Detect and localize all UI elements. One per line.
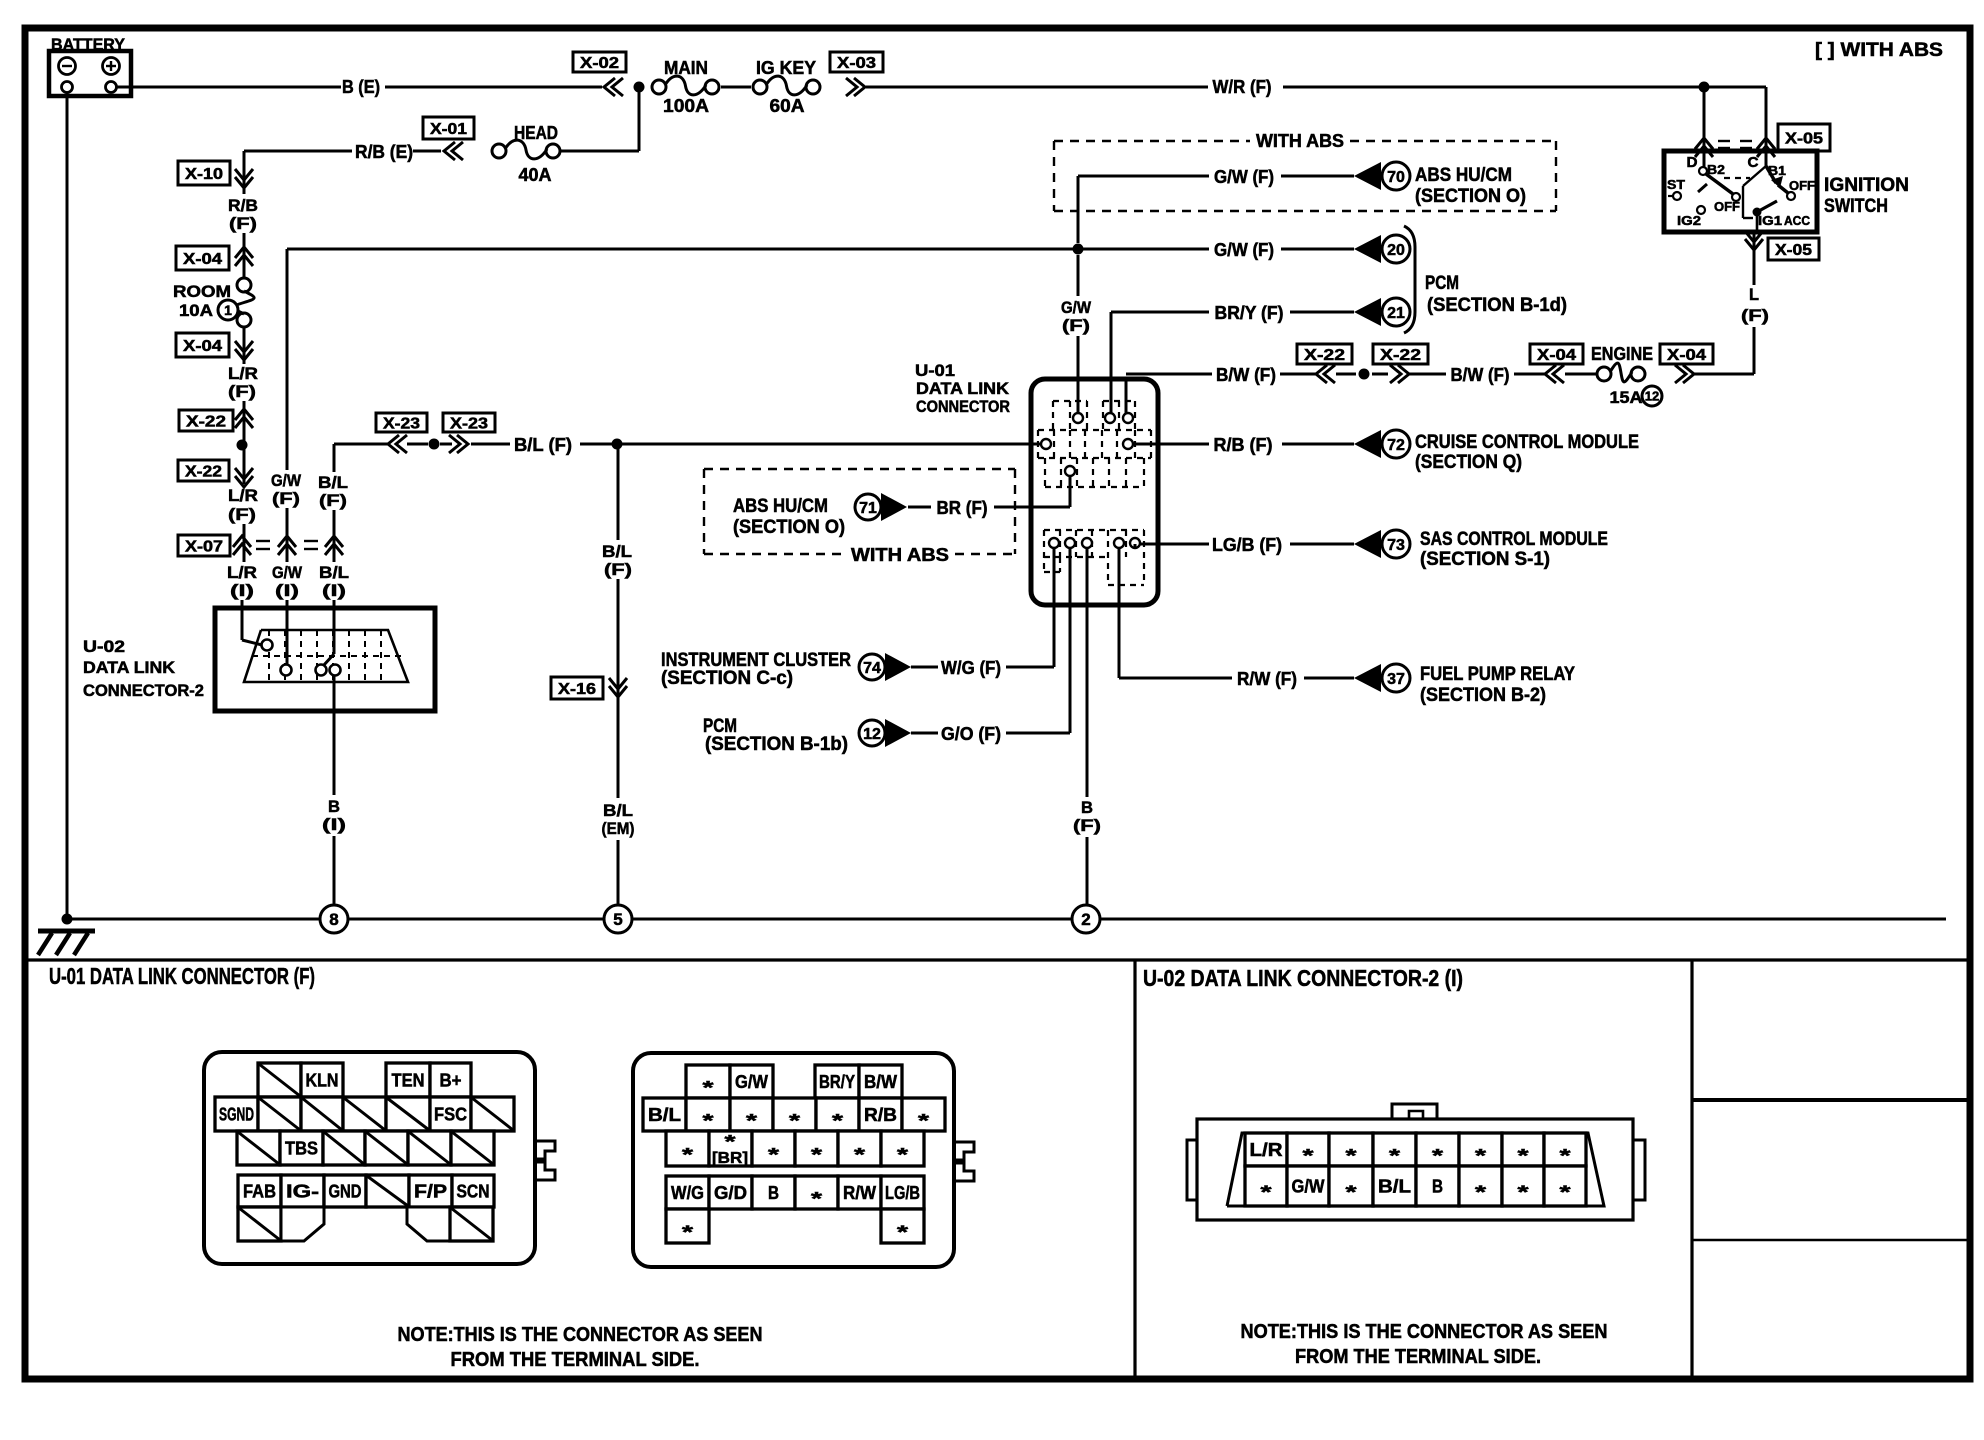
svg-text:B/L: B/L	[648, 1105, 681, 1125]
U-01 pins top	[1073, 413, 1083, 423]
svg-text:15A: 15A	[1610, 388, 1643, 407]
svg-text:71: 71	[859, 500, 877, 517]
svg-text:*: *	[854, 1145, 865, 1165]
svg-text:(F): (F)	[604, 560, 632, 579]
U-02 view side tabs	[1187, 1140, 1197, 1200]
svg-text:CONNECTOR-2: CONNECTOR-2	[83, 681, 204, 700]
U-01 view row3	[237, 1131, 280, 1165]
svg-text:G/W: G/W	[1292, 1177, 1325, 1197]
U-01 view row2	[215, 1097, 258, 1131]
svg-text:37: 37	[1387, 671, 1405, 688]
svg-text:B: B	[768, 1183, 779, 1203]
U-01 pins bottom	[1049, 538, 1059, 548]
svg-text:B/W (F): B/W (F)	[1451, 365, 1510, 385]
svg-text:B/L: B/L	[319, 563, 349, 582]
svg-text:CRUISE CONTROL MODULE: CRUISE CONTROL MODULE	[1415, 432, 1639, 453]
svg-text:U-01: U-01	[915, 361, 955, 380]
wire G/O row	[911, 732, 938, 735]
svg-text:(F): (F)	[1062, 316, 1090, 335]
U-01 view row4	[238, 1175, 281, 1207]
ground node 2	[1072, 905, 1100, 933]
svg-text:*: *	[897, 1223, 908, 1243]
svg-text:*: *	[811, 1145, 822, 1165]
wire B/L row	[334, 443, 389, 446]
wire BR row	[908, 506, 931, 509]
svg-text:X-22: X-22	[1380, 347, 1421, 364]
U-01 dashed pin blocks top	[1052, 401, 1054, 430]
U-02 pin field dashes	[268, 630, 270, 682]
svg-text:WITH ABS: WITH ABS	[851, 545, 949, 565]
svg-text:*: *	[1303, 1146, 1314, 1166]
svg-text:B+: B+	[440, 1071, 462, 1091]
wire W/G row	[911, 666, 938, 669]
svg-text:B/W: B/W	[864, 1072, 897, 1092]
wire G/W column	[286, 249, 289, 470]
svg-text:X-23: X-23	[383, 416, 420, 433]
svg-text:FAB: FAB	[243, 1182, 276, 1202]
wire to ignition switch D	[1703, 87, 1706, 167]
PCM bracket	[1404, 226, 1415, 333]
wire B/W row	[1125, 378, 1128, 414]
svg-text:X-05: X-05	[1785, 131, 1823, 148]
svg-text:*: *	[897, 1145, 908, 1165]
junction node G/W	[1073, 244, 1084, 255]
dashed box WITH ABS lower	[704, 468, 1015, 470]
U-01 pins middle	[1041, 439, 1051, 449]
svg-text:*: *	[918, 1111, 929, 1131]
module arrow 73 SAS	[1354, 530, 1381, 558]
svg-text:*: *	[789, 1111, 800, 1131]
svg-text:(F): (F)	[228, 505, 256, 524]
svg-text:U-01 DATA LINK CONNECTOR (F): U-01 DATA LINK CONNECTOR (F)	[49, 963, 315, 989]
svg-text:LG/B: LG/B	[885, 1183, 920, 1203]
svg-text:D: D	[1687, 154, 1698, 171]
svg-text:SWITCH: SWITCH	[1824, 196, 1888, 217]
svg-text:PCM: PCM	[1425, 273, 1459, 294]
svg-text:L/R: L/R	[228, 364, 258, 383]
wire G/W to ABS	[1077, 176, 1080, 243]
svg-text:12: 12	[863, 726, 881, 743]
svg-text:(SECTION C-c): (SECTION C-c)	[661, 668, 793, 689]
connector X-03	[830, 52, 883, 72]
wire view row1	[686, 1065, 730, 1098]
svg-text:G/W: G/W	[272, 563, 303, 582]
svg-text:R/B (F): R/B (F)	[1214, 435, 1273, 455]
svg-text:*: *	[811, 1189, 822, 1209]
connector X-23 pair	[376, 413, 427, 432]
svg-text:*: *	[768, 1145, 779, 1165]
svg-text:*: *	[1475, 1146, 1486, 1166]
svg-text:70: 70	[1387, 169, 1405, 186]
bottom right column line 1	[1692, 1098, 1970, 1102]
U-01 dashed band middle	[1038, 429, 1151, 431]
svg-text:X-02: X-02	[580, 55, 619, 72]
svg-text:60A: 60A	[770, 96, 805, 116]
svg-text:(F): (F)	[272, 489, 300, 508]
svg-text:G/D: G/D	[714, 1183, 747, 1203]
ground bus wire	[67, 918, 320, 921]
svg-text:R/W (F): R/W (F)	[1237, 669, 1297, 689]
wire B/L to X-16	[617, 449, 620, 540]
module arrow 20 PCM	[1354, 235, 1381, 263]
svg-text:*: *	[832, 1111, 843, 1131]
wire to ignition switch B1	[1765, 87, 1768, 166]
svg-text:ST: ST	[1667, 177, 1685, 192]
svg-text:X-22: X-22	[185, 464, 222, 481]
svg-text:(EM): (EM)	[602, 819, 635, 838]
svg-text:X-07: X-07	[185, 539, 223, 556]
svg-text:X-04: X-04	[183, 338, 222, 355]
svg-text:5: 5	[613, 910, 622, 929]
connector X-05 bottom	[1745, 239, 1763, 250]
wire R/B(E) branch from MAIN junction	[638, 87, 641, 151]
svg-text:G/W: G/W	[1061, 298, 1092, 317]
connector X-05 top	[1695, 138, 1713, 149]
svg-text:B/L: B/L	[1378, 1177, 1411, 1197]
svg-text:X-04: X-04	[183, 251, 222, 268]
svg-text:(I): (I)	[275, 581, 299, 600]
svg-text:*: *	[682, 1223, 693, 1243]
svg-text:R/B: R/B	[864, 1105, 897, 1125]
connector X-22 upper	[179, 410, 233, 431]
wire B(F) to ground	[1086, 548, 1089, 797]
wire B(I) to ground	[333, 676, 336, 795]
svg-text:TEN: TEN	[392, 1071, 425, 1091]
svg-text:G/O (F): G/O (F)	[941, 724, 1001, 744]
svg-text:(SECTION B-2): (SECTION B-2)	[1420, 685, 1546, 706]
junction node B/L	[612, 439, 623, 450]
U-01 dashed block bottom	[1044, 529, 1144, 531]
fuse HEAD 40A	[492, 144, 506, 158]
svg-text:72: 72	[1387, 437, 1405, 454]
U-01 wire-side connector outline	[633, 1053, 954, 1267]
wire view row4	[666, 1176, 709, 1209]
svg-text:21: 21	[1387, 305, 1405, 322]
svg-text:X-23: X-23	[450, 416, 488, 433]
svg-text:*: *	[703, 1078, 714, 1098]
svg-text:W/R (F): W/R (F)	[1213, 77, 1272, 97]
svg-text:FUEL PUMP RELAY: FUEL PUMP RELAY	[1420, 664, 1575, 685]
U-02 view body	[1197, 1119, 1633, 1220]
module arrow 21 PCM	[1354, 298, 1381, 326]
svg-text:BR (F): BR (F)	[937, 498, 988, 518]
svg-text:*: *	[725, 1132, 736, 1152]
svg-text:*: *	[1560, 1146, 1571, 1166]
svg-text:(F): (F)	[319, 491, 347, 510]
svg-text:X-04: X-04	[1667, 347, 1706, 364]
connector X-02	[573, 52, 626, 72]
U-01 pin BR	[1065, 466, 1075, 476]
svg-text:B: B	[328, 797, 340, 816]
svg-text:B: B	[1081, 798, 1093, 817]
svg-text:ABS HU/CM: ABS HU/CM	[733, 496, 828, 517]
svg-text:74: 74	[863, 660, 881, 677]
svg-text:12: 12	[1645, 389, 1659, 404]
svg-text:OFF: OFF	[1789, 178, 1815, 193]
svg-text:IG2: IG2	[1677, 213, 1701, 228]
svg-text:(SECTION Q): (SECTION Q)	[1415, 452, 1522, 473]
svg-text:IG1: IG1	[1758, 213, 1782, 228]
wire R/B row	[1133, 443, 1209, 446]
svg-text:G/W: G/W	[271, 471, 302, 490]
U-02 view trapezoid	[1227, 1133, 1604, 1206]
svg-text:W/G (F): W/G (F)	[941, 658, 1001, 678]
U-01 view row1	[258, 1063, 301, 1097]
U-01 terminal-side connector outline	[204, 1052, 535, 1264]
svg-text:20: 20	[1387, 242, 1405, 259]
svg-text:(SECTION O): (SECTION O)	[1415, 186, 1526, 207]
svg-text:*: *	[1518, 1183, 1529, 1203]
svg-text:IG-: IG-	[286, 1182, 319, 1202]
svg-text:W/G: W/G	[671, 1183, 704, 1203]
wire R/W row	[1118, 548, 1121, 678]
U-01 wire view latch	[954, 1142, 974, 1181]
svg-text:X-03: X-03	[837, 55, 876, 72]
svg-text:SCN: SCN	[457, 1182, 490, 1202]
connector X-04 lower	[176, 333, 229, 357]
svg-text:8: 8	[329, 910, 338, 929]
svg-text:B (E): B (E)	[342, 77, 380, 97]
svg-text:LG/B (F): LG/B (F)	[1212, 535, 1282, 555]
U-01 connector body	[1031, 379, 1158, 605]
svg-text:*: *	[1475, 1183, 1486, 1203]
svg-text:B/L: B/L	[318, 473, 348, 492]
svg-text:(SECTION O): (SECTION O)	[733, 517, 845, 538]
fuse ENGINE 15A	[1597, 367, 1611, 381]
svg-text:10A: 10A	[179, 301, 213, 320]
svg-text:U-02 DATA LINK CONNECTOR-2 (I): U-02 DATA LINK CONNECTOR-2 (I)	[1143, 965, 1463, 991]
dashed box WITH ABS upper	[1054, 140, 1250, 142]
module arrow 72 cruise	[1354, 430, 1381, 458]
svg-text:*: *	[746, 1111, 757, 1131]
svg-text:*: *	[1346, 1183, 1357, 1203]
fuse IG KEY 60A	[753, 80, 767, 94]
svg-text:ABS HU/CM: ABS HU/CM	[1415, 165, 1512, 186]
wire BR/Y row	[1110, 312, 1113, 414]
U-02 pin B	[330, 665, 341, 676]
connector X-07	[178, 535, 230, 556]
svg-text:C: C	[1748, 154, 1759, 171]
svg-text:L/R: L/R	[228, 486, 258, 505]
wire W/R(F) to ignition switch	[866, 86, 1208, 89]
svg-text:2: 2	[1081, 910, 1090, 929]
svg-text:*: *	[1346, 1146, 1357, 1166]
U-01 view row5	[238, 1207, 281, 1241]
svg-text:F/P: F/P	[414, 1182, 447, 1202]
U-02 view top tab	[1392, 1104, 1437, 1119]
svg-text:*: *	[703, 1111, 714, 1131]
U-02 pin B/L	[316, 665, 327, 676]
svg-text:*: *	[682, 1145, 693, 1165]
U-02 pin L/R	[262, 640, 273, 651]
svg-text:(F): (F)	[228, 382, 256, 401]
svg-text:*: *	[1518, 1146, 1529, 1166]
svg-text:GND: GND	[329, 1182, 362, 1202]
wires into U-02	[241, 600, 244, 640]
module arrow 12 PCM	[859, 720, 885, 746]
svg-text:(F): (F)	[229, 214, 257, 233]
connector X-04 pair engine	[1530, 344, 1583, 364]
battery B1	[49, 51, 131, 96]
svg-text:100A: 100A	[663, 96, 709, 116]
connector X-16	[551, 677, 603, 699]
svg-text:73: 73	[1387, 537, 1405, 554]
svg-text:NOTE:THIS IS THE CONNECTOR AS: NOTE:THIS IS THE CONNECTOR AS SEEN	[398, 1324, 763, 1346]
fuse MAIN 100A	[652, 80, 666, 94]
svg-text:ROOM: ROOM	[173, 282, 231, 301]
svg-text:FROM THE TERMINAL SIDE.: FROM THE TERMINAL SIDE.	[451, 1349, 700, 1371]
svg-text:U-02: U-02	[83, 637, 125, 656]
svg-text:(SECTION S-1): (SECTION S-1)	[1420, 549, 1550, 570]
svg-text:DATA LINK: DATA LINK	[916, 379, 1010, 398]
svg-text:*: *	[1560, 1183, 1571, 1203]
svg-text:B/L: B/L	[602, 542, 632, 561]
svg-text:ENGINE: ENGINE	[1591, 344, 1653, 364]
wire G/W col down to U-01	[1077, 255, 1080, 296]
junction node W/R	[1699, 82, 1710, 93]
svg-text:R/B (E): R/B (E)	[355, 142, 413, 162]
svg-text:(I): (I)	[322, 581, 346, 600]
svg-text:B/L: B/L	[603, 801, 633, 820]
svg-text:B/W (F): B/W (F)	[1216, 365, 1276, 385]
svg-text:SAS CONTROL MODULE: SAS CONTROL MODULE	[1420, 529, 1608, 550]
wire LG/B row	[1134, 544, 1137, 548]
svg-text:FSC: FSC	[434, 1105, 467, 1125]
module arrow 74 instrument cluster	[859, 654, 885, 680]
wire B(E) from battery to X-02	[117, 86, 341, 89]
svg-text:FROM THE TERMINAL SIDE.: FROM THE TERMINAL SIDE.	[1295, 1346, 1541, 1368]
module arrow 71 ABS	[855, 494, 881, 520]
svg-text:X-01: X-01	[430, 121, 467, 138]
U-02 connector body	[215, 608, 435, 711]
junction node at MAIN fuse	[634, 82, 645, 93]
divider line between schematic and connector views	[22, 958, 1970, 961]
connector X-10	[178, 161, 230, 185]
svg-text:R/W: R/W	[843, 1183, 876, 1203]
connector X-04 upper	[176, 246, 229, 270]
X-07 link dashes	[256, 540, 270, 542]
svg-text:X-04: X-04	[1537, 347, 1576, 364]
ignition switch box	[1664, 151, 1817, 232]
ground node 8	[320, 905, 348, 933]
svg-text:TBS: TBS	[285, 1139, 318, 1159]
wire battery ground down	[66, 93, 69, 919]
svg-text:IGNITION: IGNITION	[1824, 175, 1909, 196]
svg-text:*: *	[1261, 1183, 1272, 1203]
U-02 view cells	[1245, 1133, 1287, 1166]
svg-text:X-22: X-22	[186, 414, 226, 431]
ground symbol	[38, 929, 95, 934]
svg-text:*: *	[1389, 1146, 1400, 1166]
bottom right column line 2	[1692, 1239, 1970, 1241]
svg-text:L/R: L/R	[227, 563, 257, 582]
svg-text:HEAD: HEAD	[514, 123, 558, 143]
wire B/L column	[333, 444, 336, 472]
module arrow 37 fuel pump relay	[1354, 664, 1381, 692]
connector X-22 lower	[178, 460, 229, 481]
svg-text:CONNECTOR: CONNECTOR	[916, 397, 1010, 416]
U-02 pin field trapezoid	[244, 630, 408, 682]
junction node L/R	[237, 440, 248, 451]
svg-text:DATA LINK: DATA LINK	[83, 658, 176, 677]
svg-text:[ ] WITH ABS: [ ] WITH ABS	[1815, 40, 1943, 61]
svg-text:KLN: KLN	[306, 1071, 339, 1091]
svg-text:B/L (F): B/L (F)	[514, 435, 572, 455]
svg-text:X-10: X-10	[185, 166, 223, 183]
svg-text:L: L	[1749, 285, 1759, 304]
svg-text:[BR]: [BR]	[712, 1150, 748, 1167]
svg-text:SGND: SGND	[219, 1105, 254, 1125]
U-01 view latch	[535, 1141, 555, 1180]
bottom right column divider	[1690, 960, 1693, 1379]
bottom panel divider U-01/U-02	[1133, 960, 1136, 1379]
ground node 5	[604, 905, 632, 933]
svg-text:G/W: G/W	[735, 1072, 768, 1092]
svg-text:L/R: L/R	[1250, 1140, 1283, 1160]
wire view row2	[643, 1098, 686, 1131]
fuse ROOM 10A	[237, 278, 251, 292]
svg-text:X-16: X-16	[558, 681, 596, 698]
svg-text:R/B: R/B	[228, 196, 258, 215]
wire G/W long horizontal	[287, 248, 1209, 251]
svg-text:IG KEY: IG KEY	[756, 58, 816, 78]
svg-text:X-22: X-22	[1304, 347, 1345, 364]
svg-text:B: B	[1432, 1177, 1443, 1197]
module arrow 70 ABS HU/CM	[1354, 162, 1381, 190]
svg-text:(SECTION B-1b): (SECTION B-1b)	[705, 734, 848, 755]
svg-text:*: *	[1432, 1146, 1443, 1166]
connector X-01	[423, 117, 474, 139]
svg-text:ACC: ACC	[1784, 213, 1811, 228]
svg-text:BR/Y (F): BR/Y (F)	[1215, 303, 1284, 323]
U-01 dashed row BR	[1044, 458, 1046, 487]
svg-text:1: 1	[224, 302, 232, 318]
U-02 pin G/W	[286, 664, 289, 666]
svg-text:(SECTION B-1d): (SECTION B-1d)	[1427, 295, 1567, 316]
svg-text:NOTE:THIS IS THE CONNECTOR AS: NOTE:THIS IS THE CONNECTOR AS SEEN	[1241, 1321, 1608, 1343]
wire view row5	[666, 1209, 709, 1243]
svg-text:X-05: X-05	[1775, 242, 1812, 259]
svg-text:G/W (F): G/W (F)	[1214, 167, 1274, 187]
connector X-22 pair right	[1297, 344, 1352, 364]
wire L(F) from ignition switch	[1753, 327, 1756, 374]
svg-text:G/W (F): G/W (F)	[1214, 240, 1274, 260]
svg-text:BR/Y: BR/Y	[819, 1072, 855, 1092]
svg-text:WITH ABS: WITH ABS	[1256, 131, 1344, 151]
svg-text:(F): (F)	[1073, 816, 1101, 835]
svg-text:40A: 40A	[519, 165, 552, 185]
wire view row3	[666, 1131, 709, 1166]
svg-text:(F): (F)	[1741, 306, 1769, 325]
svg-text:(I): (I)	[230, 581, 254, 600]
svg-text:MAIN: MAIN	[664, 58, 708, 78]
svg-text:(I): (I)	[322, 815, 346, 834]
